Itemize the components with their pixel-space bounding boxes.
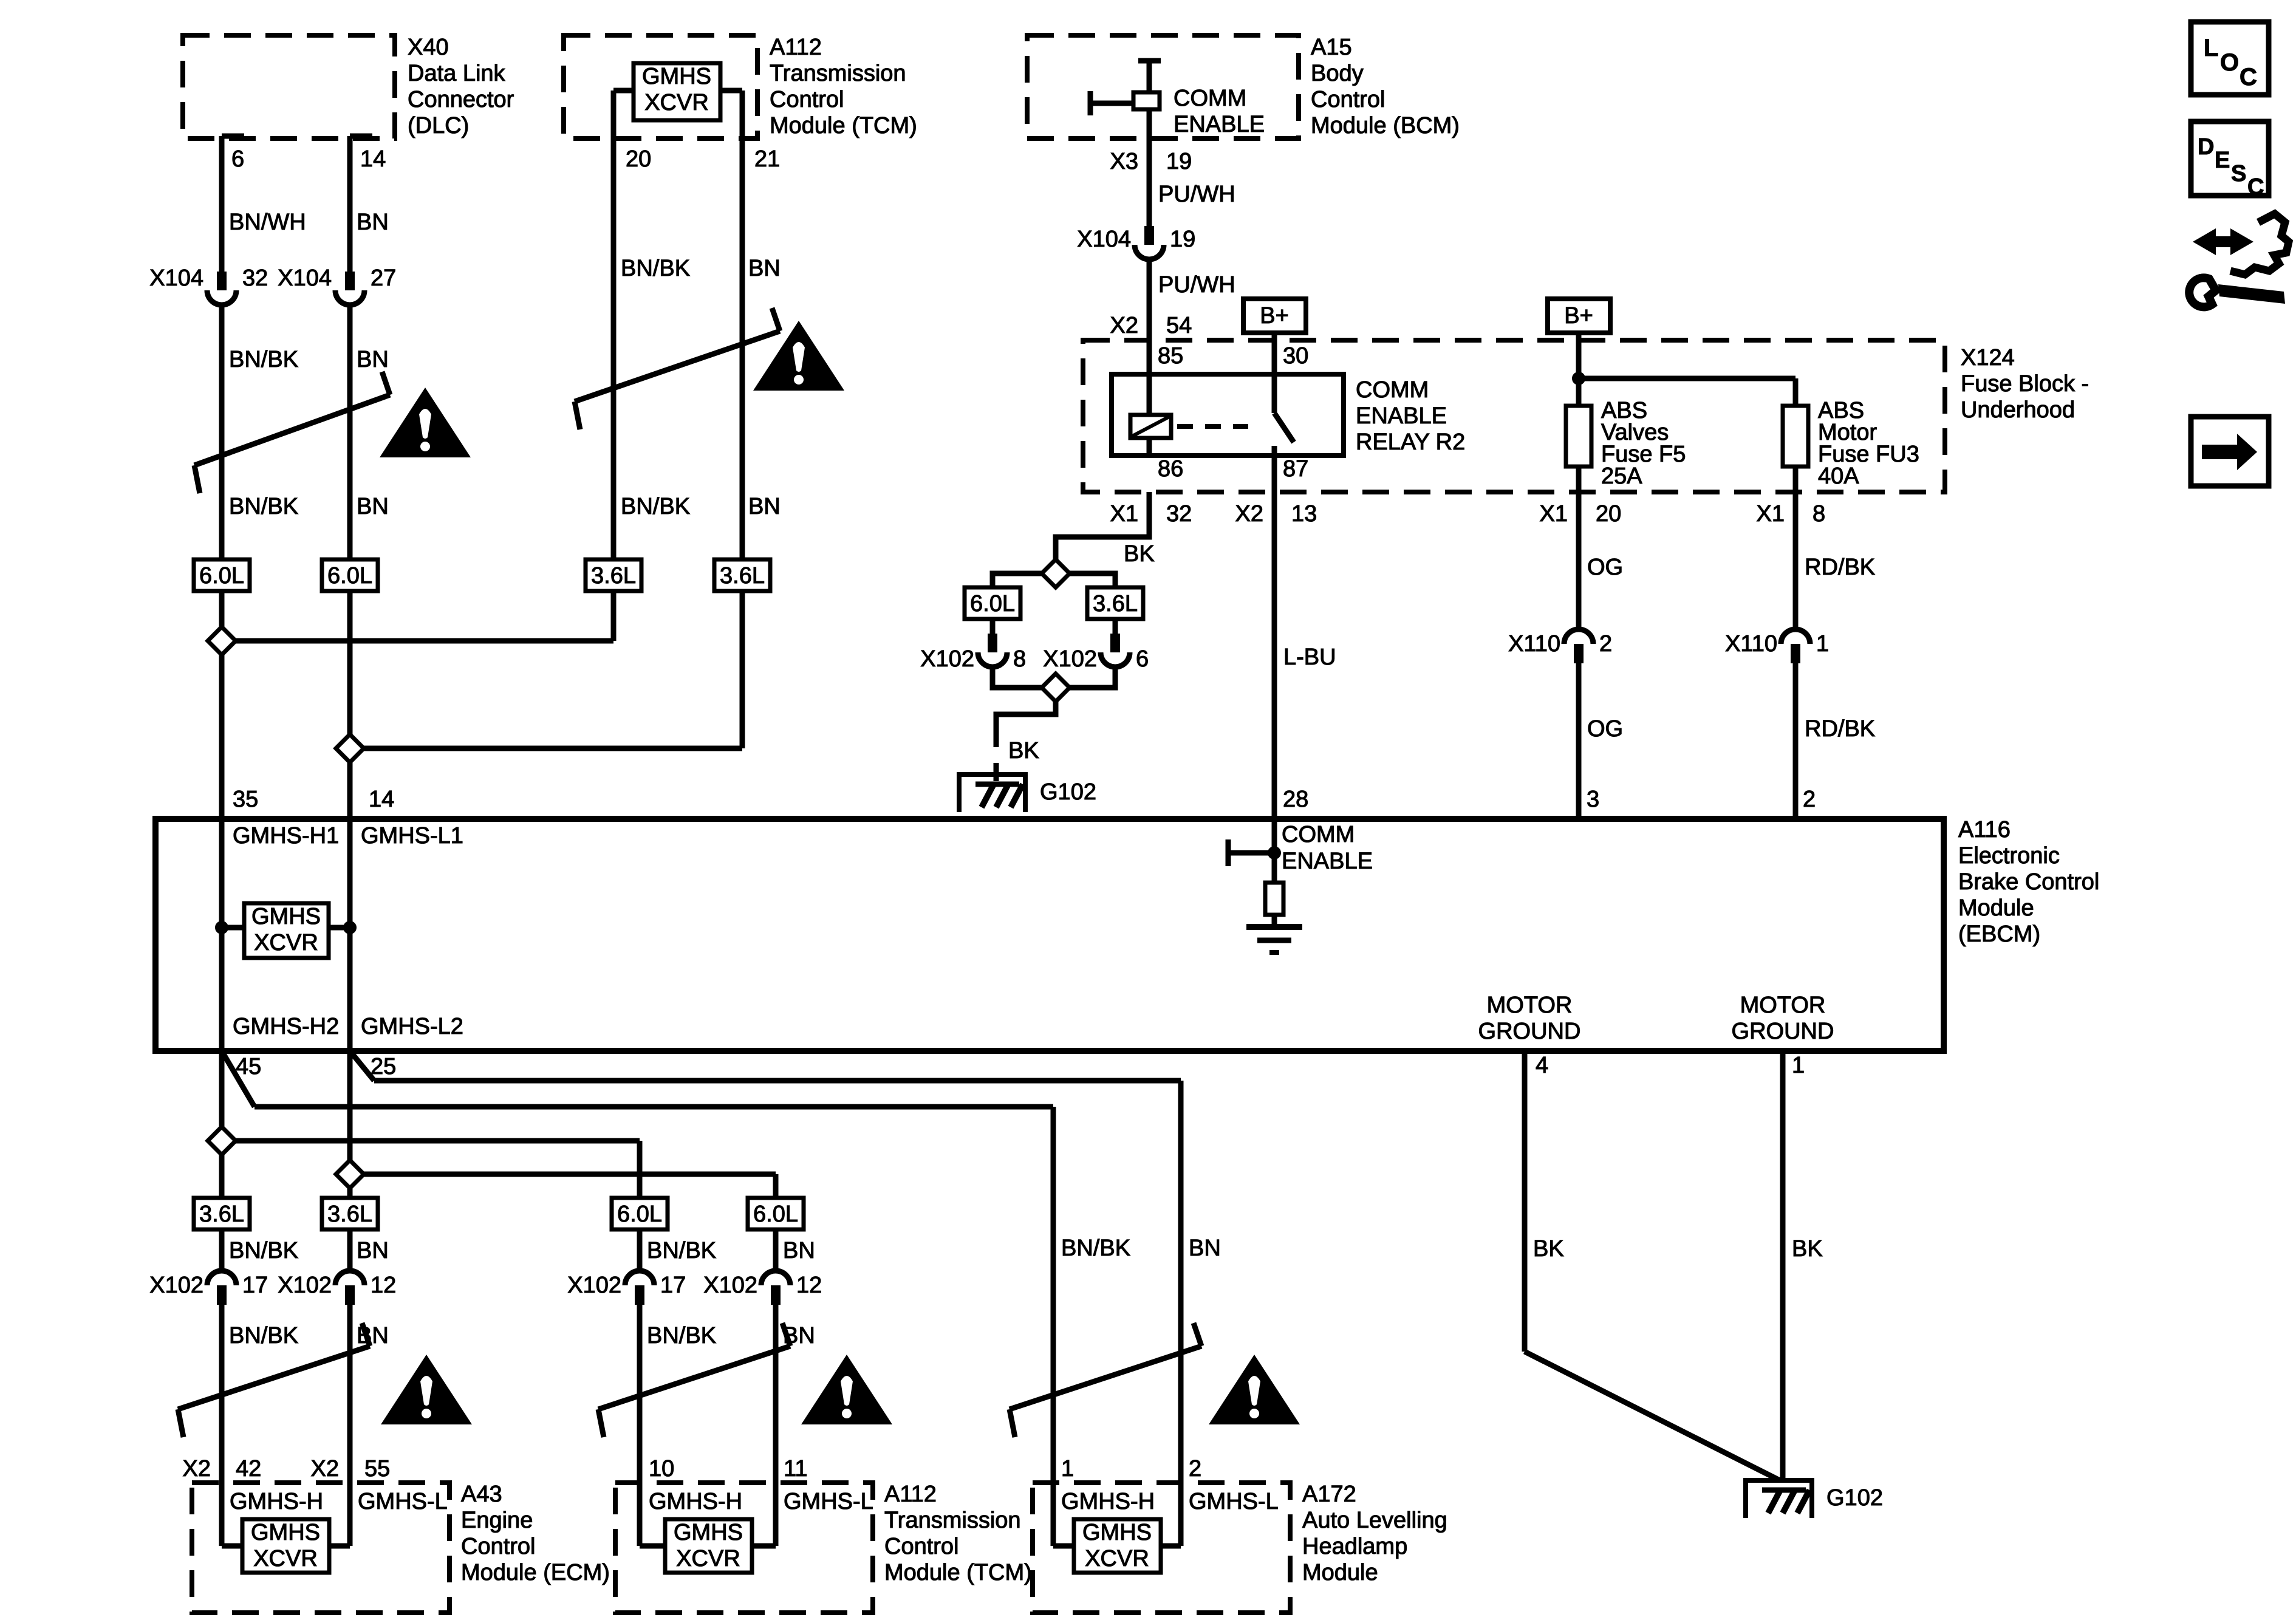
- value box 3.6L (pin 21): [714, 559, 770, 591]
- wire 3.6L to X102-6: [1113, 619, 1118, 634]
- connector X102 pin 8: [988, 634, 997, 652]
- wire W2 conn to ECM: [347, 1305, 353, 1546]
- svg-text:Transmission: Transmission: [884, 1508, 1021, 1533]
- node diamond L2 split: [336, 1160, 364, 1188]
- XCVR stub right (EBCM): [329, 925, 350, 931]
- svg-text:19: 19: [1166, 149, 1192, 174]
- value box 6.0L (TCM-H): [612, 1198, 668, 1229]
- XCVR stub right (ECM): [329, 1543, 350, 1549]
- module box A116 EBCM: [155, 819, 1944, 1051]
- svg-text:6: 6: [231, 146, 244, 172]
- svg-text:X110: X110: [1508, 631, 1560, 657]
- svg-text:32: 32: [1166, 501, 1192, 527]
- svg-text:GMHS: GMHS: [251, 904, 321, 929]
- svg-text:6.0L: 6.0L: [327, 563, 372, 589]
- svg-text:14: 14: [369, 787, 394, 812]
- svg-text:X102: X102: [703, 1273, 757, 1298]
- warning triangle 1: [380, 388, 471, 457]
- svg-text:X124: X124: [1961, 345, 2015, 371]
- svg-text:Connector: Connector: [408, 87, 514, 112]
- module box X40 Data Link Connector (DLC): [183, 35, 395, 138]
- wire W2 box to conn: [347, 1229, 353, 1270]
- icon harness repair (arrows + wrench): [2210, 236, 2236, 247]
- svg-text:BN: BN: [357, 1238, 389, 1263]
- wire into EBCM pin 35: [219, 652, 225, 819]
- svg-text:GMHS-L: GMHS-L: [1189, 1489, 1279, 1514]
- svg-text:11: 11: [784, 1456, 807, 1482]
- fuse block X124 dashed box: [1083, 340, 1945, 492]
- svg-text:GMHS-H2: GMHS-H2: [233, 1014, 339, 1039]
- wire W1 box to conn: [219, 1229, 225, 1270]
- wire TCM pin 20: [611, 91, 617, 559]
- svg-text:S: S: [2231, 161, 2246, 186]
- svg-text:Electronic: Electronic: [1958, 843, 2060, 869]
- svg-text:XCVR: XCVR: [254, 930, 318, 955]
- wire GMHS-H inside EBCM: [219, 819, 225, 1051]
- wire X102-8 to merge: [993, 668, 1044, 688]
- connector X104 pin 19: [1144, 226, 1154, 245]
- svg-text:BN: BN: [357, 494, 389, 519]
- svg-text:6.0L: 6.0L: [199, 563, 244, 589]
- svg-text:Data Link: Data Link: [408, 61, 506, 86]
- svg-text:E: E: [2215, 148, 2230, 173]
- wire W1 down: [219, 1051, 225, 1270]
- ground G102 (right): [1746, 1480, 1812, 1518]
- svg-text:3: 3: [1587, 787, 1599, 812]
- wire split left branch: [993, 573, 1044, 587]
- svg-text:X2: X2: [311, 1456, 339, 1482]
- fuse F5 (ABS Valves 25A): [1566, 406, 1591, 467]
- wire W2 down: [347, 1051, 353, 1270]
- wire resistor to chassis ground: [1272, 915, 1277, 927]
- svg-text:1: 1: [1816, 631, 1829, 657]
- svg-text:BN: BN: [357, 210, 389, 235]
- icon box DESC: [2191, 121, 2269, 196]
- svg-text:X102: X102: [1043, 646, 1097, 672]
- relay switch blade: [1272, 374, 1277, 413]
- junction dot XCVR left: [215, 921, 228, 934]
- GMHS XCVR box (EBCM): [244, 903, 329, 958]
- svg-text:A43: A43: [461, 1482, 502, 1507]
- svg-text:BN: BN: [748, 494, 781, 519]
- svg-text:X104: X104: [278, 265, 332, 291]
- svg-text:PU/WH: PU/WH: [1158, 182, 1235, 207]
- wire H2 to TCM: [233, 1138, 640, 1144]
- svg-text:A112: A112: [884, 1482, 937, 1507]
- svg-text:Control: Control: [770, 87, 844, 112]
- svg-text:17: 17: [242, 1273, 268, 1298]
- svg-text:X3: X3: [1110, 149, 1138, 174]
- wire pin20 to bus: [611, 591, 617, 641]
- node diamond GMHS-H1 junction: [208, 627, 236, 655]
- icon box next-arrow: [2191, 417, 2269, 486]
- svg-text:Control: Control: [1311, 87, 1385, 112]
- svg-text:RELAY R2: RELAY R2: [1356, 429, 1465, 455]
- svg-text:45: 45: [236, 1054, 261, 1079]
- svg-text:40A: 40A: [1818, 463, 1859, 489]
- svg-text:GMHS-L: GMHS-L: [358, 1489, 448, 1514]
- wire BK dashed to ground: [994, 729, 999, 781]
- wire FU3 to X1-8: [1793, 467, 1799, 492]
- svg-text:13: 13: [1291, 501, 1317, 527]
- svg-text:BN/BK: BN/BK: [229, 347, 298, 372]
- svg-text:Module: Module: [1302, 1560, 1378, 1585]
- svg-text:BN/BK: BN/BK: [647, 1238, 716, 1263]
- value box 3.6L (pin 20): [586, 559, 641, 591]
- svg-text:6.0L: 6.0L: [970, 591, 1015, 617]
- wire BN segment: [347, 306, 353, 559]
- svg-text:XCVR: XCVR: [1085, 1546, 1149, 1571]
- svg-text:BK: BK: [1533, 1236, 1564, 1262]
- svg-text:X2: X2: [1235, 501, 1263, 527]
- svg-text:L-BU: L-BU: [1283, 644, 1336, 670]
- svg-text:12: 12: [796, 1273, 822, 1298]
- GMHS XCVR box (A172): [1074, 1519, 1161, 1573]
- svg-text:1: 1: [1792, 1053, 1805, 1078]
- wire merge to ground: [996, 699, 1056, 729]
- wire split right branch: [1067, 573, 1115, 587]
- wire OG lower: [1576, 663, 1582, 819]
- wire B+ to FU3: [1579, 376, 1795, 381]
- wire TCML conn to TCM: [773, 1305, 779, 1546]
- wire RD/BK lower: [1793, 663, 1799, 819]
- svg-text:X1: X1: [1110, 501, 1138, 527]
- svg-text:GMHS-H1: GMHS-H1: [233, 823, 339, 849]
- svg-text:GMHS-H: GMHS-H: [230, 1489, 323, 1514]
- module box A43 ECM: [192, 1483, 449, 1613]
- connector X102 pin 12 (ECM-L): [335, 1271, 364, 1285]
- note line 2 (TCM wires): [575, 331, 780, 402]
- svg-text:X2: X2: [1110, 313, 1138, 338]
- svg-text:Module (TCM): Module (TCM): [884, 1560, 1032, 1585]
- svg-text:MOTOR: MOTOR: [1740, 993, 1826, 1018]
- svg-text:Module: Module: [1958, 895, 2034, 921]
- relay coil: [1130, 415, 1171, 438]
- svg-text:BN: BN: [1189, 1236, 1221, 1261]
- svg-text:X104: X104: [149, 265, 203, 291]
- note line 5 (A172 wires): [1010, 1346, 1201, 1409]
- value box 6.0L (wire 6): [194, 559, 250, 591]
- relay box COMM ENABLE RELAY R2: [1112, 374, 1344, 456]
- svg-text:BN/BK: BN/BK: [229, 1323, 298, 1349]
- svg-text:2: 2: [1803, 787, 1816, 812]
- svg-text:GMHS: GMHS: [642, 64, 711, 89]
- svg-text:BN: BN: [783, 1238, 815, 1263]
- XCVR stub right (A172): [1161, 1543, 1181, 1549]
- connector X104 pin 27: [345, 272, 355, 290]
- svg-text:Underhood: Underhood: [1961, 397, 2075, 423]
- svg-text:(DLC): (DLC): [408, 113, 469, 138]
- svg-text:A112: A112: [770, 35, 822, 60]
- module box A172 Auto Levelling Headlamp Module: [1033, 1483, 1290, 1613]
- svg-text:XCVR: XCVR: [253, 1546, 318, 1571]
- svg-text:30: 30: [1283, 343, 1308, 369]
- XCVR stub left (EBCM): [222, 925, 244, 931]
- svg-text:12: 12: [371, 1273, 396, 1298]
- svg-text:XCVR: XCVR: [644, 90, 709, 115]
- svg-text:BN/BK: BN/BK: [621, 256, 690, 281]
- svg-text:GMHS-L2: GMHS-L2: [361, 1014, 463, 1039]
- svg-text:14: 14: [360, 146, 386, 172]
- svg-text:BN: BN: [357, 347, 389, 372]
- connector X110 pin 2: [1564, 629, 1593, 644]
- svg-text:X102: X102: [278, 1273, 332, 1298]
- svg-text:OG: OG: [1587, 555, 1623, 580]
- svg-text:3.6L: 3.6L: [199, 1202, 244, 1227]
- svg-text:GROUND: GROUND: [1732, 1019, 1834, 1044]
- svg-text:85: 85: [1158, 343, 1183, 369]
- svg-text:2: 2: [1189, 1456, 1201, 1482]
- svg-text:L: L: [2204, 35, 2218, 61]
- svg-text:Brake Control: Brake Control: [1958, 869, 2099, 895]
- svg-text:BK: BK: [1792, 1236, 1823, 1262]
- svg-text:55: 55: [364, 1456, 390, 1482]
- wire DLC pin 14 stub: [350, 134, 372, 139]
- svg-text:(EBCM): (EBCM): [1958, 921, 2040, 947]
- warning triangle 3: [381, 1355, 472, 1424]
- note line 1 (DLC wires): [194, 395, 390, 465]
- value box 6.0L (TCM-L): [748, 1198, 804, 1229]
- svg-text:COMM: COMM: [1174, 86, 1246, 111]
- module box A112 TCM (bottom): [615, 1483, 873, 1613]
- svg-text:25A: 25A: [1601, 463, 1642, 489]
- svg-text:RD/BK: RD/BK: [1805, 555, 1875, 580]
- connector X104 pin 32: [217, 272, 227, 290]
- COMM ENABLE output symbol (BCM): [1138, 58, 1161, 64]
- connector X102 pin 17 (TCM-H): [625, 1271, 654, 1285]
- svg-text:BN/BK: BN/BK: [647, 1323, 716, 1349]
- svg-text:GMHS-L: GMHS-L: [784, 1489, 873, 1514]
- svg-text:Body: Body: [1311, 61, 1364, 86]
- svg-text:BN/BK: BN/BK: [229, 1238, 298, 1263]
- fuse FU3 (ABS Motor 40A): [1783, 406, 1808, 467]
- svg-text:32: 32: [242, 265, 268, 291]
- GMHS XCVR box (TCM top): [634, 63, 720, 120]
- node diamond BK merge: [1042, 674, 1070, 702]
- svg-text:Headlamp: Headlamp: [1302, 1534, 1407, 1559]
- svg-text:BN/BK: BN/BK: [621, 494, 690, 519]
- wire TCMH conn to TCM: [637, 1305, 643, 1546]
- wire RD/BK upper: [1793, 492, 1799, 628]
- svg-text:6: 6: [1136, 646, 1149, 672]
- wire GMHS-L2 bus diagonal: [350, 1051, 374, 1081]
- wire L2 to TCM: [361, 1172, 776, 1177]
- svg-text:GMHS: GMHS: [251, 1520, 320, 1545]
- node diamond GMHS-L1 junction: [336, 734, 364, 762]
- svg-text:27: 27: [371, 265, 396, 291]
- wire PU/WH segment 2: [1147, 261, 1152, 374]
- wire A172-L down: [1178, 1081, 1184, 1546]
- GMHS XCVR box (TCM bottom): [665, 1519, 752, 1573]
- wire L-BU relay 87 to EBCM: [1272, 492, 1277, 819]
- svg-text:Control: Control: [461, 1534, 536, 1559]
- wire relay 86 to split: [1056, 492, 1149, 562]
- svg-text:A172: A172: [1302, 1482, 1356, 1507]
- svg-text:X110: X110: [1725, 631, 1777, 657]
- svg-text:PU/WH: PU/WH: [1158, 272, 1235, 298]
- junction dot XCVR right: [343, 921, 357, 934]
- connector X102 pin 6: [1110, 634, 1120, 652]
- svg-text:X1: X1: [1540, 501, 1568, 527]
- svg-text:BN/BK: BN/BK: [1061, 1236, 1130, 1261]
- svg-text:Module (TCM): Module (TCM): [770, 113, 917, 138]
- note line 4 (TCM wires): [598, 1346, 790, 1409]
- svg-text:3.6L: 3.6L: [591, 563, 636, 589]
- svg-text:8: 8: [1013, 646, 1026, 672]
- XCVR stub left (ECM): [222, 1543, 242, 1549]
- XCVR stub left (TCM bottom): [640, 1543, 665, 1549]
- svg-text:O: O: [2220, 49, 2239, 76]
- svg-text:BK: BK: [1124, 541, 1155, 567]
- value box 3.6L (BK right): [1087, 587, 1143, 619]
- connector X102 pin 12 (TCM-L): [761, 1271, 790, 1285]
- svg-text:6.0L: 6.0L: [753, 1202, 798, 1227]
- node diamond H2 split: [208, 1127, 236, 1155]
- wire W1 conn to ECM: [219, 1305, 225, 1546]
- svg-text:42: 42: [236, 1456, 261, 1482]
- chassis ground (EBCM): [1246, 924, 1302, 930]
- svg-text:ENABLE: ENABLE: [1174, 112, 1265, 137]
- svg-text:4: 4: [1536, 1053, 1548, 1078]
- svg-text:A15: A15: [1311, 35, 1352, 60]
- svg-text:17: 17: [660, 1273, 686, 1298]
- svg-text:COMM: COMM: [1282, 822, 1355, 847]
- connector X102 pin 17 (ECM-H): [207, 1271, 236, 1285]
- XCVR stub right: [720, 88, 742, 94]
- wire BCM X3-19 down: [1147, 109, 1152, 226]
- svg-text:G102: G102: [1040, 779, 1096, 805]
- wire to diamond 2: [347, 591, 353, 737]
- B+ feed 2: [1548, 299, 1610, 333]
- module box A15 BCM: [1027, 35, 1299, 138]
- B+ feed 1: [1243, 299, 1306, 333]
- svg-text:D: D: [2198, 134, 2214, 160]
- wire BN/BK segment 1: [219, 306, 225, 559]
- wire pin21 to bus: [740, 591, 745, 748]
- svg-text:BN/WH: BN/WH: [229, 210, 306, 235]
- svg-text:86: 86: [1158, 456, 1183, 482]
- XCVR stub left: [613, 88, 634, 94]
- svg-text:GMHS: GMHS: [674, 1520, 743, 1545]
- connector X110 pin 1: [1781, 629, 1810, 644]
- relay dashed link: [1177, 424, 1248, 429]
- wire GMHS-L inside EBCM: [347, 819, 353, 1051]
- svg-text:GROUND: GROUND: [1478, 1019, 1581, 1044]
- svg-text:BN: BN: [748, 256, 781, 281]
- svg-text:RD/BK: RD/BK: [1805, 716, 1875, 742]
- ground G102 (left): [959, 774, 1025, 812]
- XCVR stub right (TCM bottom): [752, 1543, 776, 1549]
- COMM ENABLE input symbol (EBCM): [1272, 819, 1277, 883]
- wire OG upper: [1576, 492, 1582, 628]
- wire TCMH box to conn: [637, 1229, 643, 1270]
- svg-text:GMHS-H: GMHS-H: [1061, 1489, 1155, 1514]
- relay coil wire: [1147, 374, 1152, 415]
- value box 6.0L (BK left): [965, 587, 1020, 619]
- svg-text:25: 25: [371, 1054, 396, 1079]
- value box 3.6L (W1): [194, 1198, 250, 1229]
- svg-text:X1: X1: [1757, 501, 1785, 527]
- svg-text:X102: X102: [920, 646, 974, 672]
- svg-text:BK: BK: [1008, 738, 1039, 764]
- svg-text:8: 8: [1813, 501, 1825, 527]
- warning triangle 5: [1209, 1355, 1300, 1424]
- node diamond BK split: [1042, 559, 1070, 587]
- svg-text:19: 19: [1170, 227, 1195, 252]
- warning triangle 4: [801, 1355, 892, 1424]
- svg-text:G102: G102: [1826, 1485, 1883, 1511]
- XCVR stub left (A172): [1053, 1543, 1074, 1549]
- resistor (EBCM comm enable): [1265, 883, 1283, 915]
- value box 6.0L (wire 14): [322, 559, 378, 591]
- warning triangle 2: [753, 321, 844, 391]
- svg-text:20: 20: [1596, 501, 1621, 527]
- svg-text:C: C: [2247, 174, 2264, 200]
- svg-text:A116: A116: [1958, 817, 2011, 843]
- svg-text:B+: B+: [1564, 303, 1593, 329]
- svg-text:Control: Control: [884, 1534, 959, 1559]
- wire GMHS-H2 bus diagonal: [222, 1051, 255, 1107]
- svg-text:C: C: [2240, 64, 2257, 91]
- svg-text:35: 35: [233, 787, 258, 812]
- wire X102-6 to merge: [1067, 668, 1115, 688]
- svg-text:COMM: COMM: [1356, 377, 1429, 403]
- svg-text:3.6L: 3.6L: [720, 563, 765, 589]
- wire TCM pin 21: [740, 91, 745, 559]
- value box 3.6L (W2): [322, 1198, 378, 1229]
- wire F5 to X1-20: [1576, 467, 1582, 492]
- wire motor ground 1: [1780, 1051, 1786, 1480]
- svg-text:6.0L: 6.0L: [617, 1202, 662, 1227]
- junction dot B+ split: [1572, 372, 1585, 385]
- svg-text:B+: B+: [1260, 303, 1289, 329]
- wire into EBCM pin 14: [347, 760, 353, 819]
- module box A112 TCM (top): [564, 35, 757, 138]
- GMHS XCVR box (ECM): [242, 1519, 329, 1573]
- svg-text:GMHS: GMHS: [1082, 1520, 1152, 1545]
- svg-text:X102: X102: [567, 1273, 621, 1298]
- svg-text:OG: OG: [1587, 716, 1623, 742]
- svg-text:GMHS-L1: GMHS-L1: [361, 823, 463, 849]
- svg-text:Transmission: Transmission: [770, 61, 906, 86]
- svg-text:20: 20: [626, 146, 651, 172]
- svg-text:X104: X104: [1077, 227, 1131, 252]
- wire TCML box to conn: [773, 1229, 779, 1270]
- svg-text:Module (ECM): Module (ECM): [461, 1560, 610, 1585]
- svg-text:3.6L: 3.6L: [327, 1202, 372, 1227]
- svg-text:X102: X102: [149, 1273, 203, 1298]
- svg-text:X2: X2: [183, 1456, 211, 1482]
- wire DLC pin 6 stub: [222, 134, 244, 139]
- svg-text:XCVR: XCVR: [676, 1546, 740, 1571]
- svg-text:28: 28: [1283, 787, 1308, 812]
- svg-text:2: 2: [1599, 631, 1612, 657]
- svg-text:10: 10: [649, 1456, 674, 1482]
- svg-text:87: 87: [1283, 456, 1308, 482]
- icon box LOC: [2191, 22, 2269, 95]
- svg-text:MOTOR: MOTOR: [1487, 993, 1573, 1018]
- svg-text:GMHS-H: GMHS-H: [649, 1489, 742, 1514]
- svg-text:21: 21: [754, 146, 780, 172]
- wire to diamond: [219, 591, 225, 629]
- svg-text:ENABLE: ENABLE: [1282, 849, 1373, 874]
- svg-text:Fuse Block -: Fuse Block -: [1961, 371, 2089, 397]
- svg-text:BN/BK: BN/BK: [229, 494, 298, 519]
- svg-text:X40: X40: [408, 35, 449, 60]
- note line 3 (ECM wires): [178, 1346, 370, 1409]
- svg-text:Module (BCM): Module (BCM): [1311, 113, 1460, 138]
- wire motor ground 4: [1522, 1051, 1528, 1352]
